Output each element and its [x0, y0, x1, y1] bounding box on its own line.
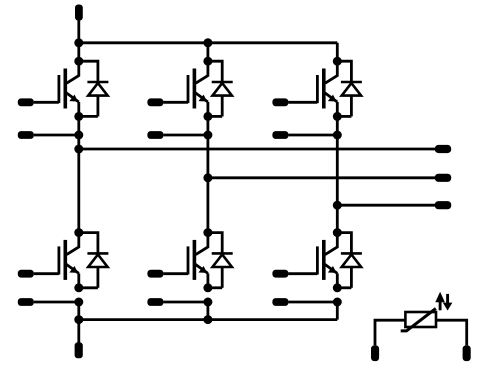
wire phase W leg (upper emitter to lower collector)	[336, 116, 339, 232]
transistor Q2 (IGBT)	[59, 233, 79, 288]
diode D6 (freewheeling, anti-parallel)	[337, 233, 362, 288]
terminal gate G3 (Q5)	[272, 98, 288, 106]
wire DC- feed	[77, 320, 80, 343]
terminal gate G4 (Q2)	[18, 270, 34, 278]
terminal auxiliary emitter E3 (Q5)	[272, 131, 288, 139]
wire lower emitter drop col1	[77, 302, 80, 320]
wire gate lead Q2	[34, 272, 59, 275]
node DC+ junction col2	[203, 38, 212, 47]
node emitter Q3	[203, 112, 212, 121]
terminal auxiliary emitter E2 (Q3)	[147, 131, 163, 139]
wire rail drop to Q5	[336, 43, 339, 61]
terminal thermistor T1	[371, 345, 379, 361]
terminal gate G2 (Q3)	[147, 98, 163, 106]
terminal gate G6 (Q6)	[272, 270, 288, 278]
diode D4 (freewheeling, anti-parallel)	[208, 233, 233, 288]
node auxiliary emitter Q2	[74, 298, 83, 307]
wire DC+ feed	[77, 19, 80, 43]
diode D5 (freewheeling, anti-parallel)	[337, 61, 362, 116]
terminal phase output W	[435, 201, 451, 209]
terminal thermistor T2	[463, 345, 471, 361]
wire auxiliary emitter lead Q4	[163, 301, 208, 304]
thermistor RT1 (NTC temperature sensor)	[401, 309, 436, 331]
transistor Q6 (IGBT)	[317, 233, 337, 288]
node phase V tap	[203, 173, 212, 182]
terminal phase output U	[435, 145, 451, 153]
wire phase output V	[208, 176, 436, 179]
diode D2 (freewheeling, anti-parallel)	[79, 233, 109, 288]
wire phase U leg (upper emitter to lower collector)	[77, 116, 80, 232]
wire rail drop to Q3	[206, 43, 209, 61]
terminal phase output V	[435, 174, 451, 182]
wire gate lead Q1	[34, 101, 59, 104]
terminal DC- (negative bus)	[75, 342, 83, 358]
transistor Q4 (IGBT)	[188, 233, 208, 288]
node collector Q4	[203, 228, 212, 237]
wire auxiliary emitter lead Q1	[34, 134, 79, 137]
down arrow (bidirectional temperature indicator)	[443, 294, 453, 311]
node auxiliary emitter Q3	[203, 131, 212, 140]
node collector Q3	[203, 57, 212, 66]
transistor Q3 (IGBT)	[188, 61, 208, 116]
node auxiliary emitter Q1	[74, 131, 83, 140]
node emitter Q6	[333, 283, 342, 292]
terminal gate G5 (Q4)	[147, 270, 163, 278]
up arrow (bidirectional temperature indicator)	[435, 292, 445, 311]
wire auxiliary emitter lead Q2	[34, 301, 79, 304]
node collector Q6	[333, 228, 342, 237]
wire DC- bottom rail	[79, 318, 338, 321]
diode D3 (freewheeling, anti-parallel)	[208, 61, 233, 116]
diode D1 (freewheeling, anti-parallel)	[79, 61, 109, 116]
node emitter Q2	[74, 283, 83, 292]
terminal DC+ (positive bus)	[75, 5, 83, 21]
node emitter Q4	[203, 283, 212, 292]
wire phase output U	[79, 148, 436, 151]
terminal auxiliary emitter E1 (Q1)	[18, 131, 34, 139]
node DC- junction col1	[74, 315, 83, 324]
transistor Q5 (IGBT)	[317, 61, 337, 116]
node collector Q5	[333, 57, 342, 66]
node collector Q1	[74, 57, 83, 66]
node DC+ junction col1	[74, 38, 83, 47]
node collector Q2	[74, 228, 83, 237]
terminal auxiliary emitter E5 (Q4)	[147, 298, 163, 306]
node DC- junction col2	[203, 315, 212, 324]
node emitter Q1	[74, 112, 83, 121]
node emitter Q5	[333, 112, 342, 121]
wire thermistor left lead	[375, 320, 405, 345]
wire phase output W	[337, 204, 436, 207]
node auxiliary emitter Q5	[333, 131, 342, 140]
wire phase V leg (upper emitter to lower collector)	[206, 116, 209, 232]
wire auxiliary emitter lead Q5	[288, 134, 337, 137]
node auxiliary emitter Q6	[333, 298, 342, 307]
node auxiliary emitter Q4	[203, 298, 212, 307]
transistor Q1 (IGBT)	[59, 61, 79, 116]
wire DC+ top rail	[79, 41, 338, 44]
wire rail drop to Q1	[77, 43, 80, 61]
wire gate lead Q5	[288, 101, 317, 104]
terminal gate G1 (Q1)	[18, 98, 34, 106]
wire auxiliary emitter lead Q3	[163, 134, 208, 137]
wire lower emitter drop col2	[206, 302, 209, 320]
node phase W tap	[333, 201, 342, 210]
node phase U tap	[74, 145, 83, 154]
wire lower emitter drop col3	[336, 302, 339, 320]
terminal auxiliary emitter E4 (Q2)	[18, 298, 34, 306]
wire gate lead Q6	[288, 272, 317, 275]
wire gate lead Q4	[163, 272, 188, 275]
terminal auxiliary emitter E6 (Q6)	[272, 298, 288, 306]
wire gate lead Q3	[163, 101, 188, 104]
wire thermistor right lead	[436, 320, 467, 345]
wire auxiliary emitter lead Q6	[288, 301, 337, 304]
